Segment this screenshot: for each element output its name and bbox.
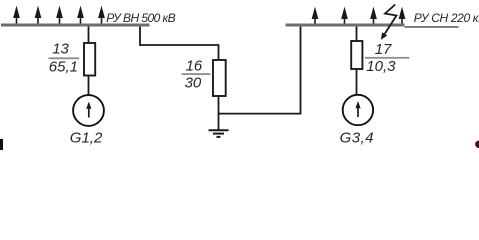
feeder arrow 5 on 500 kV bus bbox=[99, 8, 104, 24]
value label 13 over 65,1 for T1 bbox=[49, 41, 80, 76]
wire 500 kV bus toward autotransformer bbox=[140, 27, 219, 60]
busbar РУ СН 220 кВ bbox=[286, 24, 405, 27]
short-circuit lightning arrow K1 bbox=[381, 5, 397, 40]
busbar РУ ВН 500 кВ bbox=[1, 24, 150, 27]
generator G3,4 bbox=[343, 95, 373, 125]
wire AT neutral to 220 kV bus bbox=[219, 27, 301, 114]
feeder arrow 3 on 500 kV bus bbox=[57, 8, 62, 24]
value label 17 over 10,3 for T2 bbox=[365, 41, 409, 75]
feeder arrow 1 on 220 kV bus bbox=[312, 9, 317, 24]
svg-text:G3,4: G3,4 bbox=[340, 129, 374, 146]
svg-text:65,1: 65,1 bbox=[49, 58, 78, 75]
wire T1 to generator G1,2 bbox=[88, 77, 90, 96]
svg-text:10,3: 10,3 bbox=[366, 58, 396, 75]
svg-text:13: 13 bbox=[52, 41, 69, 58]
wire 500 kV bus to transformer T1 bbox=[88, 27, 90, 43]
feeder arrow 4 on 500 kV bus bbox=[78, 8, 83, 24]
feeder arrow 1 on 500 kV bus bbox=[14, 8, 19, 24]
svg-text:РУ СН 220 кВ: РУ СН 220 кВ bbox=[414, 11, 479, 25]
feeder arrow 3 on 220 kV bus bbox=[371, 9, 376, 24]
transformer T1 winding bbox=[84, 43, 95, 76]
svg-text:16: 16 bbox=[186, 57, 203, 74]
busbar РУ СН 220 кВ thin right extension bbox=[405, 26, 459, 28]
black margin mark at left edge bbox=[0, 139, 3, 150]
generator G1,2 bbox=[73, 95, 104, 126]
svg-text:G1,2: G1,2 bbox=[70, 129, 103, 146]
feeder arrow 2 on 500 kV bus bbox=[35, 8, 40, 24]
ground bbox=[209, 130, 229, 137]
svg-text:17: 17 bbox=[375, 41, 392, 58]
value label 16 over 30 for AT bbox=[182, 57, 211, 91]
transformer T2 winding bbox=[351, 41, 362, 69]
feeder arrow 2 on 220 kV bus bbox=[342, 9, 347, 24]
autotransformer AT winding bbox=[213, 60, 226, 96]
red bullet fragment at right edge bbox=[475, 141, 479, 148]
svg-text:РУ ВН 500 кВ: РУ ВН 500 кВ bbox=[106, 11, 175, 25]
feeder arrow 4 on 220 kV bus bbox=[399, 9, 404, 24]
wire AT to ground bbox=[218, 97, 220, 130]
wire 220 kV bus to transformer T2 bbox=[356, 27, 358, 41]
wire T2 to generator G3,4 bbox=[356, 70, 358, 95]
svg-text:30: 30 bbox=[185, 75, 202, 92]
